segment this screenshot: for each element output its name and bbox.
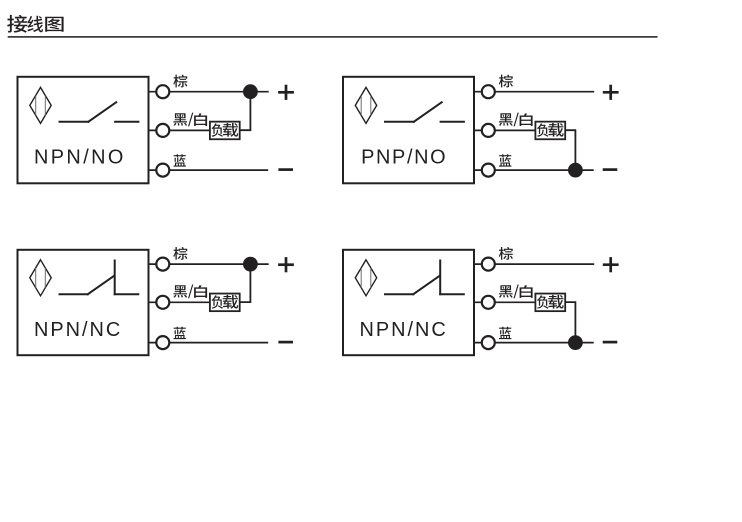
terminal circle brown: [482, 258, 495, 271]
junction dot on brown wire: [243, 257, 258, 272]
wire from load box to junction on blue wire: [565, 302, 575, 343]
minus terminal: [278, 168, 293, 171]
proximity sensor diamond symbol: [355, 87, 376, 123]
wire black/white to load: [474, 129, 536, 131]
wire label 棕 (brown): [173, 75, 187, 88]
terminal circle black/white: [156, 296, 169, 309]
wire label 黑/白 (black/white): [499, 113, 533, 127]
wire blue (-): [149, 342, 269, 344]
wire brown (+): [149, 263, 269, 265]
sensor box NPN/NC: [18, 250, 149, 355]
svg-text:NPN/NO: NPN/NO: [34, 146, 126, 168]
minus terminal: [603, 341, 618, 344]
wire brown (+): [474, 91, 594, 93]
load box 负载: [210, 294, 240, 312]
wire from load box to junction on blue wire: [565, 130, 575, 170]
svg-text:PNP/NO: PNP/NO: [361, 146, 447, 168]
terminal circle black/white: [482, 124, 495, 137]
wire brown (+): [149, 91, 269, 93]
wire blue (-): [149, 169, 269, 171]
svg-text:NPN/NC: NPN/NC: [360, 319, 448, 341]
wire black/white to load: [474, 301, 536, 303]
wire label 蓝 (blue): [174, 154, 186, 166]
wire label 棕 (brown): [499, 247, 513, 260]
wire brown (+): [474, 263, 594, 265]
junction dot on blue wire: [568, 163, 583, 178]
load box 负载: [535, 122, 565, 140]
load label 负载: [212, 123, 239, 137]
wire label 蓝 (blue): [174, 327, 186, 339]
wire blue (-): [474, 169, 594, 171]
wire label 黑/白 (black/white): [499, 284, 533, 298]
terminal circle blue: [156, 164, 169, 177]
svg-text:NPN/NC: NPN/NC: [34, 319, 122, 341]
proximity sensor diamond symbol: [30, 87, 51, 123]
load box 负载: [535, 294, 565, 312]
sensor box NPN/NC: [343, 250, 474, 355]
switch contact normally-closed: [385, 261, 464, 295]
terminal circle black/white: [482, 296, 495, 309]
load box 负载: [210, 122, 240, 140]
load label 负载: [537, 295, 564, 309]
title underline rule: [8, 36, 658, 38]
wire label 蓝 (blue): [499, 327, 511, 339]
proximity sensor diamond symbol: [30, 260, 51, 296]
switch contact normally-open: [385, 102, 464, 121]
plus terminal: [603, 85, 619, 100]
wire label 黑/白 (black/white): [173, 113, 207, 127]
wire blue (-): [474, 342, 594, 344]
switch contact normally-open: [60, 102, 139, 121]
minus terminal: [603, 168, 618, 171]
wire label 棕 (brown): [499, 75, 513, 88]
terminal circle blue: [482, 336, 495, 349]
sensor box PNP/NO: [343, 77, 474, 184]
wire label 黑/白 (black/white): [173, 284, 207, 298]
junction dot on blue wire: [568, 335, 583, 350]
terminal circle blue: [156, 336, 169, 349]
wire black/white to load: [149, 301, 211, 303]
load label 负载: [537, 123, 564, 137]
plus terminal: [278, 257, 294, 272]
switch contact normally-closed: [60, 261, 139, 295]
terminal circle blue: [482, 164, 495, 177]
wire from load box to junction on brown wire: [240, 92, 250, 131]
terminal circle brown: [156, 85, 169, 98]
plus terminal: [603, 257, 619, 272]
wire black/white to load: [149, 129, 211, 131]
minus terminal: [278, 341, 293, 344]
plus terminal: [278, 85, 294, 100]
load label 负载: [212, 295, 239, 309]
sensor box NPN/NO: [18, 77, 149, 184]
terminal circle brown: [156, 258, 169, 271]
title text 接线图 (Wiring Diagram): [7, 15, 63, 33]
junction dot on brown wire: [243, 84, 258, 99]
terminal circle black/white: [156, 124, 169, 137]
wire from load box to junction on brown wire: [240, 264, 250, 302]
terminal circle brown: [482, 85, 495, 98]
wire label 蓝 (blue): [499, 154, 511, 166]
proximity sensor diamond symbol: [355, 260, 376, 296]
wire label 棕 (brown): [173, 247, 187, 260]
